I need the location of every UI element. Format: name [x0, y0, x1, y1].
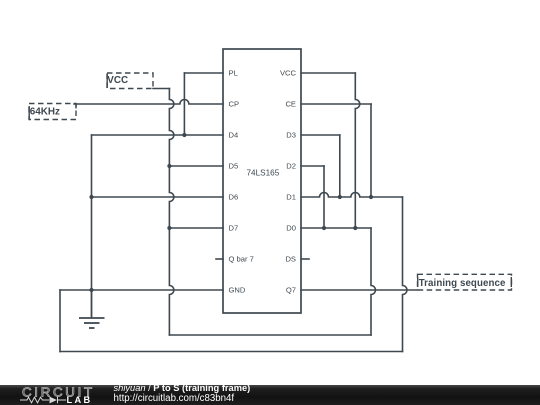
junction node GND-ground — [89, 288, 93, 292]
footer bar — [0, 385, 540, 405]
svg-text:Training sequence: Training sequence — [419, 278, 506, 289]
wire VCC label feed horizontal — [153, 88, 169, 90]
svg-text:D2: D2 — [286, 162, 296, 171]
svg-text:CE: CE — [285, 100, 296, 109]
wire vertical x371 CE down to D1 junction — [370, 104, 372, 197]
wire vertical x402.5 D1 down to outer bottom with hop at Q7 row — [403, 197, 407, 352]
svg-text:D4: D4 — [229, 131, 239, 140]
pin stub DS — [301, 258, 309, 260]
wire vertical x324 D2 down to D0 — [323, 166, 325, 228]
ground symbol — [79, 290, 105, 328]
svg-text:GND: GND — [229, 286, 246, 295]
svg-text:http://circuitlab.com/c83bn4f: http://circuitlab.com/c83bn4f — [114, 393, 235, 404]
wire vertical x355.3 from VCC pin down to D0 with hops at CE — [355, 73, 360, 228]
svg-text:VCC: VCC — [107, 75, 128, 86]
svg-text:74LS165: 74LS165 — [247, 169, 280, 178]
junction node D3-D1 — [338, 195, 342, 199]
net flag VCC — [107, 73, 153, 89]
junction node VCC-D5 — [167, 164, 171, 168]
svg-text:Q bar 7: Q bar 7 — [229, 255, 254, 264]
junction node VCC-D0 — [353, 226, 357, 230]
wire Q7 row from pin to Training sequence label — [301, 289, 418, 291]
wire left vertical x60 GND row to bottom — [59, 290, 61, 352]
wire D3 row from pin to x339.8 — [301, 134, 340, 136]
wire CP from 64KHz label to CP pin with hop over x184 — [74, 100, 223, 105]
wire GND row from x60 corner to GND pin — [60, 289, 223, 291]
net flag 64KHz — [29, 104, 76, 120]
svg-text:VCC: VCC — [280, 69, 297, 78]
IC pin labels — [229, 69, 297, 295]
wire VCC vertical x169.4 with hops at CP,D4,D6,GND — [169, 89, 174, 336]
logo waveform resistor+diode — [20, 397, 66, 403]
junction node VCC-D7 — [167, 226, 171, 230]
svg-text:64KHz: 64KHz — [30, 106, 60, 117]
wire bottom middle y335 — [169, 334, 371, 336]
svg-text:LAB: LAB — [67, 395, 93, 405]
wire D4 row from x91.5 to D4 pin — [92, 134, 224, 136]
wire vertical x371 from D0 down to y335 with hop at Q7 row — [371, 228, 375, 335]
svg-text:D6: D6 — [229, 193, 239, 202]
junction node GND-D6 — [89, 195, 93, 199]
junction node D2-D0 — [322, 226, 326, 230]
wire left ground vertical x91.5 from D4 down to GND row — [91, 135, 93, 290]
wire D2 row from pin to x324 — [301, 165, 324, 167]
wire PL pin stub and net to vertical — [184, 72, 223, 74]
wire D1 row from pin to x402.5 with hops over x324 and x355.3 — [301, 193, 403, 198]
svg-text:D3: D3 — [286, 131, 296, 140]
svg-text:shiyuan / P to S (training fra: shiyuan / P to S (training frame) — [114, 383, 251, 393]
svg-text:Q7: Q7 — [286, 286, 296, 295]
wire D5 row from VCC vertical to D5 pin — [169, 165, 223, 167]
junction node PL-D4 — [182, 133, 186, 137]
svg-text:DS: DS — [285, 255, 296, 264]
svg-text:D7: D7 — [229, 224, 239, 233]
wire D6 row from x91.5 to D6 pin — [92, 196, 224, 198]
svg-text:D0: D0 — [286, 224, 296, 233]
svg-text:CP: CP — [229, 100, 240, 109]
wire vertical x339.8 D3 down to D1 — [339, 135, 341, 197]
svg-text:PL: PL — [229, 69, 238, 78]
svg-text:D5: D5 — [229, 162, 239, 171]
svg-text:D1: D1 — [286, 193, 296, 202]
IC U1 74LS165 body — [223, 49, 301, 313]
wire outer bottom y351.5 — [60, 351, 403, 353]
pin stub Q bar 7 — [216, 258, 223, 260]
wire D7 row from VCC vertical to D7 pin — [169, 227, 223, 229]
wire D0 row from pin to x371 — [301, 227, 371, 229]
wire PL vertical down to D4 — [183, 73, 185, 135]
wire VCC pin to x355.3 — [301, 72, 355, 74]
wire CE row from pin to x371 — [301, 103, 371, 105]
junction node CE-D1 — [369, 195, 373, 199]
net flag Training sequence — [418, 274, 512, 290]
